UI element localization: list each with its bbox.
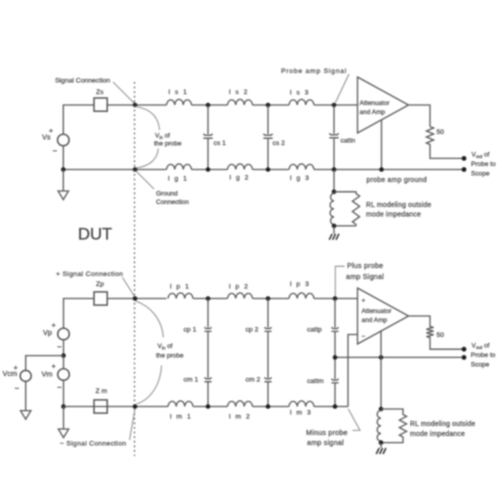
inductor l p 1 xyxy=(168,284,193,299)
wire amp ground stub xyxy=(381,120,383,170)
svg-text:cm 1: cm 1 xyxy=(184,377,199,384)
wire Zp to node xyxy=(107,298,166,300)
svg-text:−: − xyxy=(53,147,58,156)
leader Minus probe amp signal xyxy=(348,409,360,430)
svg-text:−: − xyxy=(15,384,20,393)
wire ground rail right xyxy=(314,169,462,171)
boundary dotted line xyxy=(134,82,136,456)
svg-text:the probe: the probe xyxy=(156,353,184,360)
svg-text:l s 2: l s 2 xyxy=(229,89,249,96)
svg-text:Z m: Z m xyxy=(96,388,108,395)
wire Vp to node xyxy=(63,340,65,356)
resistor 50 (top) xyxy=(426,125,444,146)
leader + Signal Connection xyxy=(123,278,135,297)
inductor l g 2 xyxy=(228,164,253,182)
wire ls2 to ls3 xyxy=(253,104,290,106)
svg-text:l p 1: l p 1 xyxy=(170,284,190,291)
svg-text:cs 2: cs 2 xyxy=(273,140,286,147)
terminal Vout dot (top) xyxy=(462,156,467,161)
node ground-connection dot xyxy=(133,167,138,172)
svg-text:Connection: Connection xyxy=(156,199,189,206)
svg-text:50: 50 xyxy=(437,129,445,136)
wire amp output xyxy=(409,105,431,125)
inductor RL-L (top) xyxy=(330,193,334,224)
wire top rail DUT side xyxy=(63,105,94,134)
node cattm-rail dot xyxy=(333,404,338,409)
node D2 dot xyxy=(266,404,271,409)
wire to RL network (top) xyxy=(333,170,335,192)
inductor l p 2 xyxy=(228,284,253,299)
svg-text:Vm: Vm xyxy=(42,370,53,379)
brace Vin of the probe (top) xyxy=(136,107,182,169)
svg-text:Vin of: Vin of xyxy=(158,343,173,351)
wire lm1 to lm2 xyxy=(193,406,228,408)
svg-text:l s 3: l s 3 xyxy=(290,90,310,97)
label RL modeling (bottom) xyxy=(410,421,475,438)
terminal mid dot xyxy=(462,355,467,360)
node amp-ground dot xyxy=(379,167,384,172)
wire top rail diff side xyxy=(64,299,95,329)
inductor RL-L (bottom) xyxy=(377,410,381,441)
voltage source Vm xyxy=(42,362,70,393)
svg-text:− Signal Connection: − Signal Connection xyxy=(60,441,126,448)
svg-text:Ground: Ground xyxy=(156,191,178,198)
wire ls1 to ls2 xyxy=(192,104,228,106)
node minus-signal dot xyxy=(133,404,138,409)
wire mid rail xyxy=(335,356,462,358)
svg-text:Signal Connection: Signal Connection xyxy=(55,78,110,85)
node RL2-top dot xyxy=(379,407,384,412)
svg-text:l m 2: l m 2 xyxy=(229,414,251,421)
wire Vcm to ground xyxy=(25,382,27,411)
wire resistor to Vout xyxy=(430,146,462,158)
wire resistor to Vout (bottom) xyxy=(430,339,462,349)
node A1 dot xyxy=(206,103,211,108)
node Vs-ground dot xyxy=(61,167,66,172)
svg-text:mode impedance: mode impedance xyxy=(366,212,421,219)
node D1 dot xyxy=(206,404,211,409)
svg-text:l g 3: l g 3 xyxy=(290,175,310,182)
svg-text:cm 2: cm 2 xyxy=(246,377,261,384)
svg-text:l m 3: l m 3 xyxy=(290,410,312,417)
brace Vin of the probe (bottom) xyxy=(136,301,184,404)
wire ground rail left xyxy=(63,169,166,171)
inductor l m 3 xyxy=(289,401,314,417)
svg-text:−: − xyxy=(57,343,62,352)
svg-text:l p 3: l p 3 xyxy=(290,281,310,288)
node plus-probe-amp dot xyxy=(333,296,338,301)
svg-text:+: + xyxy=(52,362,56,371)
svg-text:Vin of: Vin of xyxy=(155,133,170,141)
svg-text:amp signal: amp signal xyxy=(307,438,344,447)
node RL2-bottom dot xyxy=(379,440,384,445)
ground below Vm xyxy=(58,407,68,438)
impedance Zp xyxy=(94,281,107,305)
wire lp1 to lp2 xyxy=(193,298,228,300)
node C1 dot xyxy=(206,296,211,301)
svg-text:+: + xyxy=(14,363,18,372)
svg-text:l g 1: l g 1 xyxy=(168,176,188,183)
wire to Vcm xyxy=(26,356,64,371)
svg-text:Scope: Scope xyxy=(471,361,490,368)
leader Probe amp Signal xyxy=(336,74,350,103)
node A2 dot xyxy=(266,103,271,108)
inductor l s 3 xyxy=(289,90,314,106)
svg-text:l p 2: l p 2 xyxy=(229,284,249,291)
node Vp-Vm dot xyxy=(61,353,66,358)
voltage source Vcm xyxy=(3,363,32,393)
svg-text:RL modeling outside: RL modeling outside xyxy=(410,421,475,428)
ground m (top) xyxy=(329,226,339,240)
svg-text:50: 50 xyxy=(437,332,445,339)
impedance Zm xyxy=(94,388,108,413)
capacitor cattn xyxy=(329,105,355,170)
label RL modeling (top) xyxy=(366,202,431,219)
svg-text:Zp: Zp xyxy=(96,281,104,288)
svg-text:l m 1: l m 1 xyxy=(170,414,192,421)
svg-text:Attenuator: Attenuator xyxy=(362,308,393,315)
wire amp common (bottom) xyxy=(380,330,382,409)
wire ls3 to amp xyxy=(314,104,358,106)
node mid-amp dot xyxy=(379,355,384,360)
svg-text:l g 2: l g 2 xyxy=(230,175,250,182)
svg-text:probe amp ground: probe amp ground xyxy=(367,177,427,184)
svg-text:the probe: the probe xyxy=(154,141,182,148)
svg-text:Plus probe: Plus probe xyxy=(347,261,383,270)
svg-text:Probe to: Probe to xyxy=(471,352,496,359)
svg-text:mode impedance: mode impedance xyxy=(410,431,465,438)
svg-text:cs 1: cs 1 xyxy=(214,140,227,147)
svg-text:Attenuator: Attenuator xyxy=(360,100,391,107)
capacitor cp 1 xyxy=(184,299,212,334)
svg-text:amp Signal: amp Signal xyxy=(346,272,384,281)
svg-text:cattm: cattm xyxy=(307,378,324,385)
voltage source Vs xyxy=(42,126,69,156)
wire Vs to ground rail xyxy=(62,146,64,169)
svg-text:+: + xyxy=(49,126,53,135)
leader Signal Connection xyxy=(113,82,134,103)
inductor l s 2 xyxy=(228,89,253,105)
node Vm-rail dot xyxy=(61,404,66,409)
inductor l m 1 xyxy=(168,401,193,421)
label Plus probe amp Signal xyxy=(346,261,384,281)
op-amp U1 attenuator and amp xyxy=(358,77,409,133)
node B1 dot xyxy=(206,167,211,172)
ground m (bottom) xyxy=(376,443,386,454)
wire amp output (bottom) xyxy=(409,316,431,325)
wire minus rail xyxy=(64,406,169,408)
capacitor cs 1 xyxy=(203,105,226,170)
node RL-top dot xyxy=(332,190,337,195)
capacitor cattp xyxy=(307,299,339,358)
wire lp3 to amp xyxy=(314,298,358,300)
resistor RL-R (top) xyxy=(334,192,360,226)
svg-text:+: + xyxy=(362,298,366,305)
ground DUT (Vs) xyxy=(58,170,68,200)
terminal Vout dot (bottom) xyxy=(462,347,467,352)
svg-text:Probe amp Signal: Probe amp Signal xyxy=(281,68,347,75)
capacitor cs 2 xyxy=(263,105,285,170)
svg-text:−: − xyxy=(57,383,62,392)
wire lg1 to lg2 xyxy=(192,169,228,171)
svg-text:l s 1: l s 1 xyxy=(169,89,189,96)
label Ground Connection xyxy=(136,171,189,206)
label Vout of Probe to Scope (top) xyxy=(471,152,496,178)
node plus-signal dot xyxy=(133,296,138,301)
wire amp minus input xyxy=(348,335,358,407)
resistor 50 (bottom) xyxy=(426,325,444,339)
leader - Signal Connection xyxy=(130,409,136,441)
ground Vcm xyxy=(21,411,31,420)
svg-text:cattp: cattp xyxy=(307,327,322,334)
label Vout of Probe to Scope (bottom) xyxy=(471,343,496,369)
capacitor cattm xyxy=(307,357,339,406)
impedance Zs xyxy=(94,89,107,111)
capacitor cm 1 xyxy=(184,331,212,406)
svg-text:cp 2: cp 2 xyxy=(246,327,259,334)
inductor l s 1 xyxy=(167,89,192,105)
leader Plus probe amp Signal xyxy=(335,266,344,296)
terminal ground dot (top) xyxy=(462,167,467,172)
wire lg2 to lg3 xyxy=(253,169,290,171)
wire Zs to node xyxy=(107,104,166,106)
voltage source Vp xyxy=(43,321,69,352)
wire node to Vm xyxy=(63,356,65,369)
svg-text:Scope: Scope xyxy=(471,171,490,178)
node cattn-ground dot xyxy=(332,167,337,172)
svg-text:RL modeling outside: RL modeling outside xyxy=(366,202,431,209)
node RL-bottom dot xyxy=(332,224,337,229)
svg-text:cp 1: cp 1 xyxy=(184,327,197,334)
capacitor cp 2 xyxy=(246,299,272,334)
inductor l p 3 xyxy=(289,281,314,299)
node B2 dot xyxy=(266,167,271,172)
capacitor cm 2 xyxy=(246,331,272,406)
wire Vm to minus rail xyxy=(63,381,65,407)
label Minus probe amp signal xyxy=(306,428,348,447)
inductor l g 1 xyxy=(167,164,192,183)
svg-text:and Amp: and Amp xyxy=(362,317,388,324)
svg-text:+: + xyxy=(52,321,56,330)
svg-text:Zs: Zs xyxy=(96,89,104,96)
resistor RL-R (bottom) xyxy=(381,409,407,443)
node mid-cat dot xyxy=(333,355,338,360)
node probe-amp-signal dot xyxy=(332,103,337,108)
wire lm3 to minus wire xyxy=(314,406,348,408)
node C2 dot xyxy=(266,296,271,301)
svg-text:DUT: DUT xyxy=(78,225,112,244)
svg-text:and Amp: and Amp xyxy=(360,109,386,116)
svg-text:Probe to: Probe to xyxy=(471,161,496,168)
svg-text:−: − xyxy=(362,334,366,341)
svg-text:Minus probe: Minus probe xyxy=(306,428,348,437)
svg-text:cattn: cattn xyxy=(341,138,356,145)
op-amp U2 attenuator and amp xyxy=(358,288,409,344)
svg-text:+ Signal Connection: + Signal Connection xyxy=(56,271,123,278)
inductor l m 2 xyxy=(228,401,253,421)
inductor l g 3 xyxy=(289,164,314,182)
wire lp2 to lp3 xyxy=(253,298,290,300)
wire lm2 to lm3 xyxy=(253,406,290,408)
node signal-connection dot xyxy=(133,103,138,108)
